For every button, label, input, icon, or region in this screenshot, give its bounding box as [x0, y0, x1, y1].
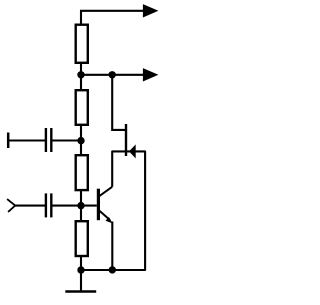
junction: C2 / R3-R4 node [77, 202, 84, 209]
arrow: output 2 [143, 68, 159, 81]
junction: output node on wire 2 [109, 71, 116, 78]
capacitor C1 [46, 128, 51, 152]
capacitor C2 [46, 193, 51, 217]
terminal: input 2 chevron [7, 199, 15, 212]
arrow: output 1 (top right) [143, 4, 159, 17]
resistor R2 [76, 90, 88, 125]
transistor Q2 (PNP, base bar with emitter arrow) [126, 124, 136, 158]
wire: top output lead [80, 10, 144, 12]
wire: C1 to divider node [52, 139, 81, 141]
wire: second output lead [81, 74, 144, 76]
junction: bottom rail at R4 [77, 266, 84, 273]
resistor R4 [76, 221, 88, 256]
wire: C2 to divider node and Q1 base [52, 205, 97, 207]
transistor Q1 (NPN) [98, 187, 112, 224]
wire: main divider rail x=81 [80, 11, 82, 291]
junction: emitter at bottom rail [109, 266, 116, 273]
junction: divider top node [77, 71, 84, 78]
resistor R3 [76, 155, 88, 190]
wire: input 2 to C2 [15, 205, 46, 207]
wire: Q1 emitter down to bottom rail [111, 222, 113, 271]
terminal: input 1 [7, 133, 10, 149]
wire: Q1 collector riser, link to right branch, down and bottom return [80, 151, 145, 270]
junction: C1 / R2-R3 node [77, 137, 84, 144]
wire: output node down to Q2 base lead [112, 75, 125, 130]
ground [65, 290, 96, 292]
wire: input 1 to C1 [8, 139, 45, 141]
resistor R1 [76, 25, 88, 63]
